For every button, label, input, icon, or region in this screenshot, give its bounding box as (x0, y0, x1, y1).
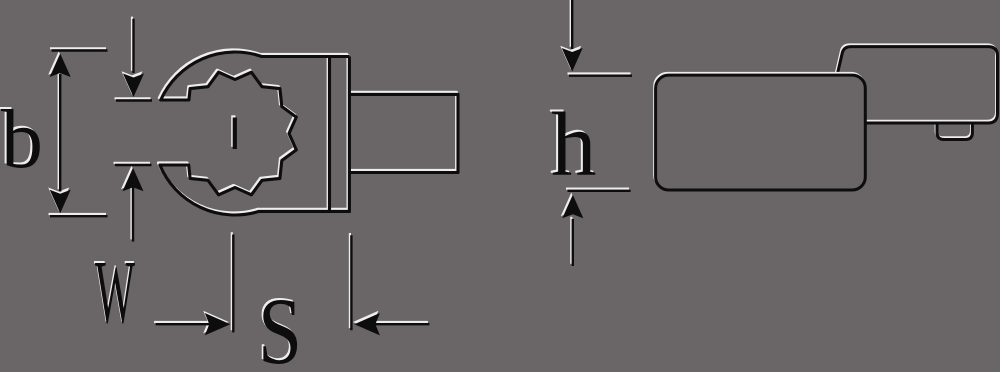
dimension h lines and ticks (568, 0, 633, 266)
wrench head side view: emboss highlight copy (835, 45, 997, 138)
dimension h arrowheads: emboss highlight copy (560, 46, 582, 216)
svg-text:S: S (258, 278, 302, 372)
dimension lines and ticks for b, W, S (50, 19, 429, 333)
svg-text:b: b (1, 93, 43, 186)
dimension lines b/W/S: emboss highlight copy (49, 17, 428, 331)
ring insert front view: emboss highlight copy (158, 50, 456, 213)
svg-text:h: h (551, 94, 597, 195)
arrowheads b/W/S: emboss highlight copy (48, 51, 378, 333)
label h (insert height dimension) (551, 94, 597, 195)
svg-text:W: W (95, 243, 135, 342)
label W (slot width dimension) (95, 243, 135, 342)
insert shank side view (rounded rectangle, occludes head lines) (654, 73, 865, 190)
ring insert front view: 12-point ring, shank and tang outline (160, 52, 458, 215)
wrench head side view with latch tab (836, 47, 998, 140)
dimension h arrowheads (562, 48, 584, 218)
arrowheads for b, W, S dimensions (50, 54, 380, 336)
label b (ring height dimension) (1, 93, 43, 186)
label S (centre-to-shank-end dimension) (258, 278, 302, 372)
dimension h lines and ticks: emboss highlight copy (566, 0, 631, 264)
